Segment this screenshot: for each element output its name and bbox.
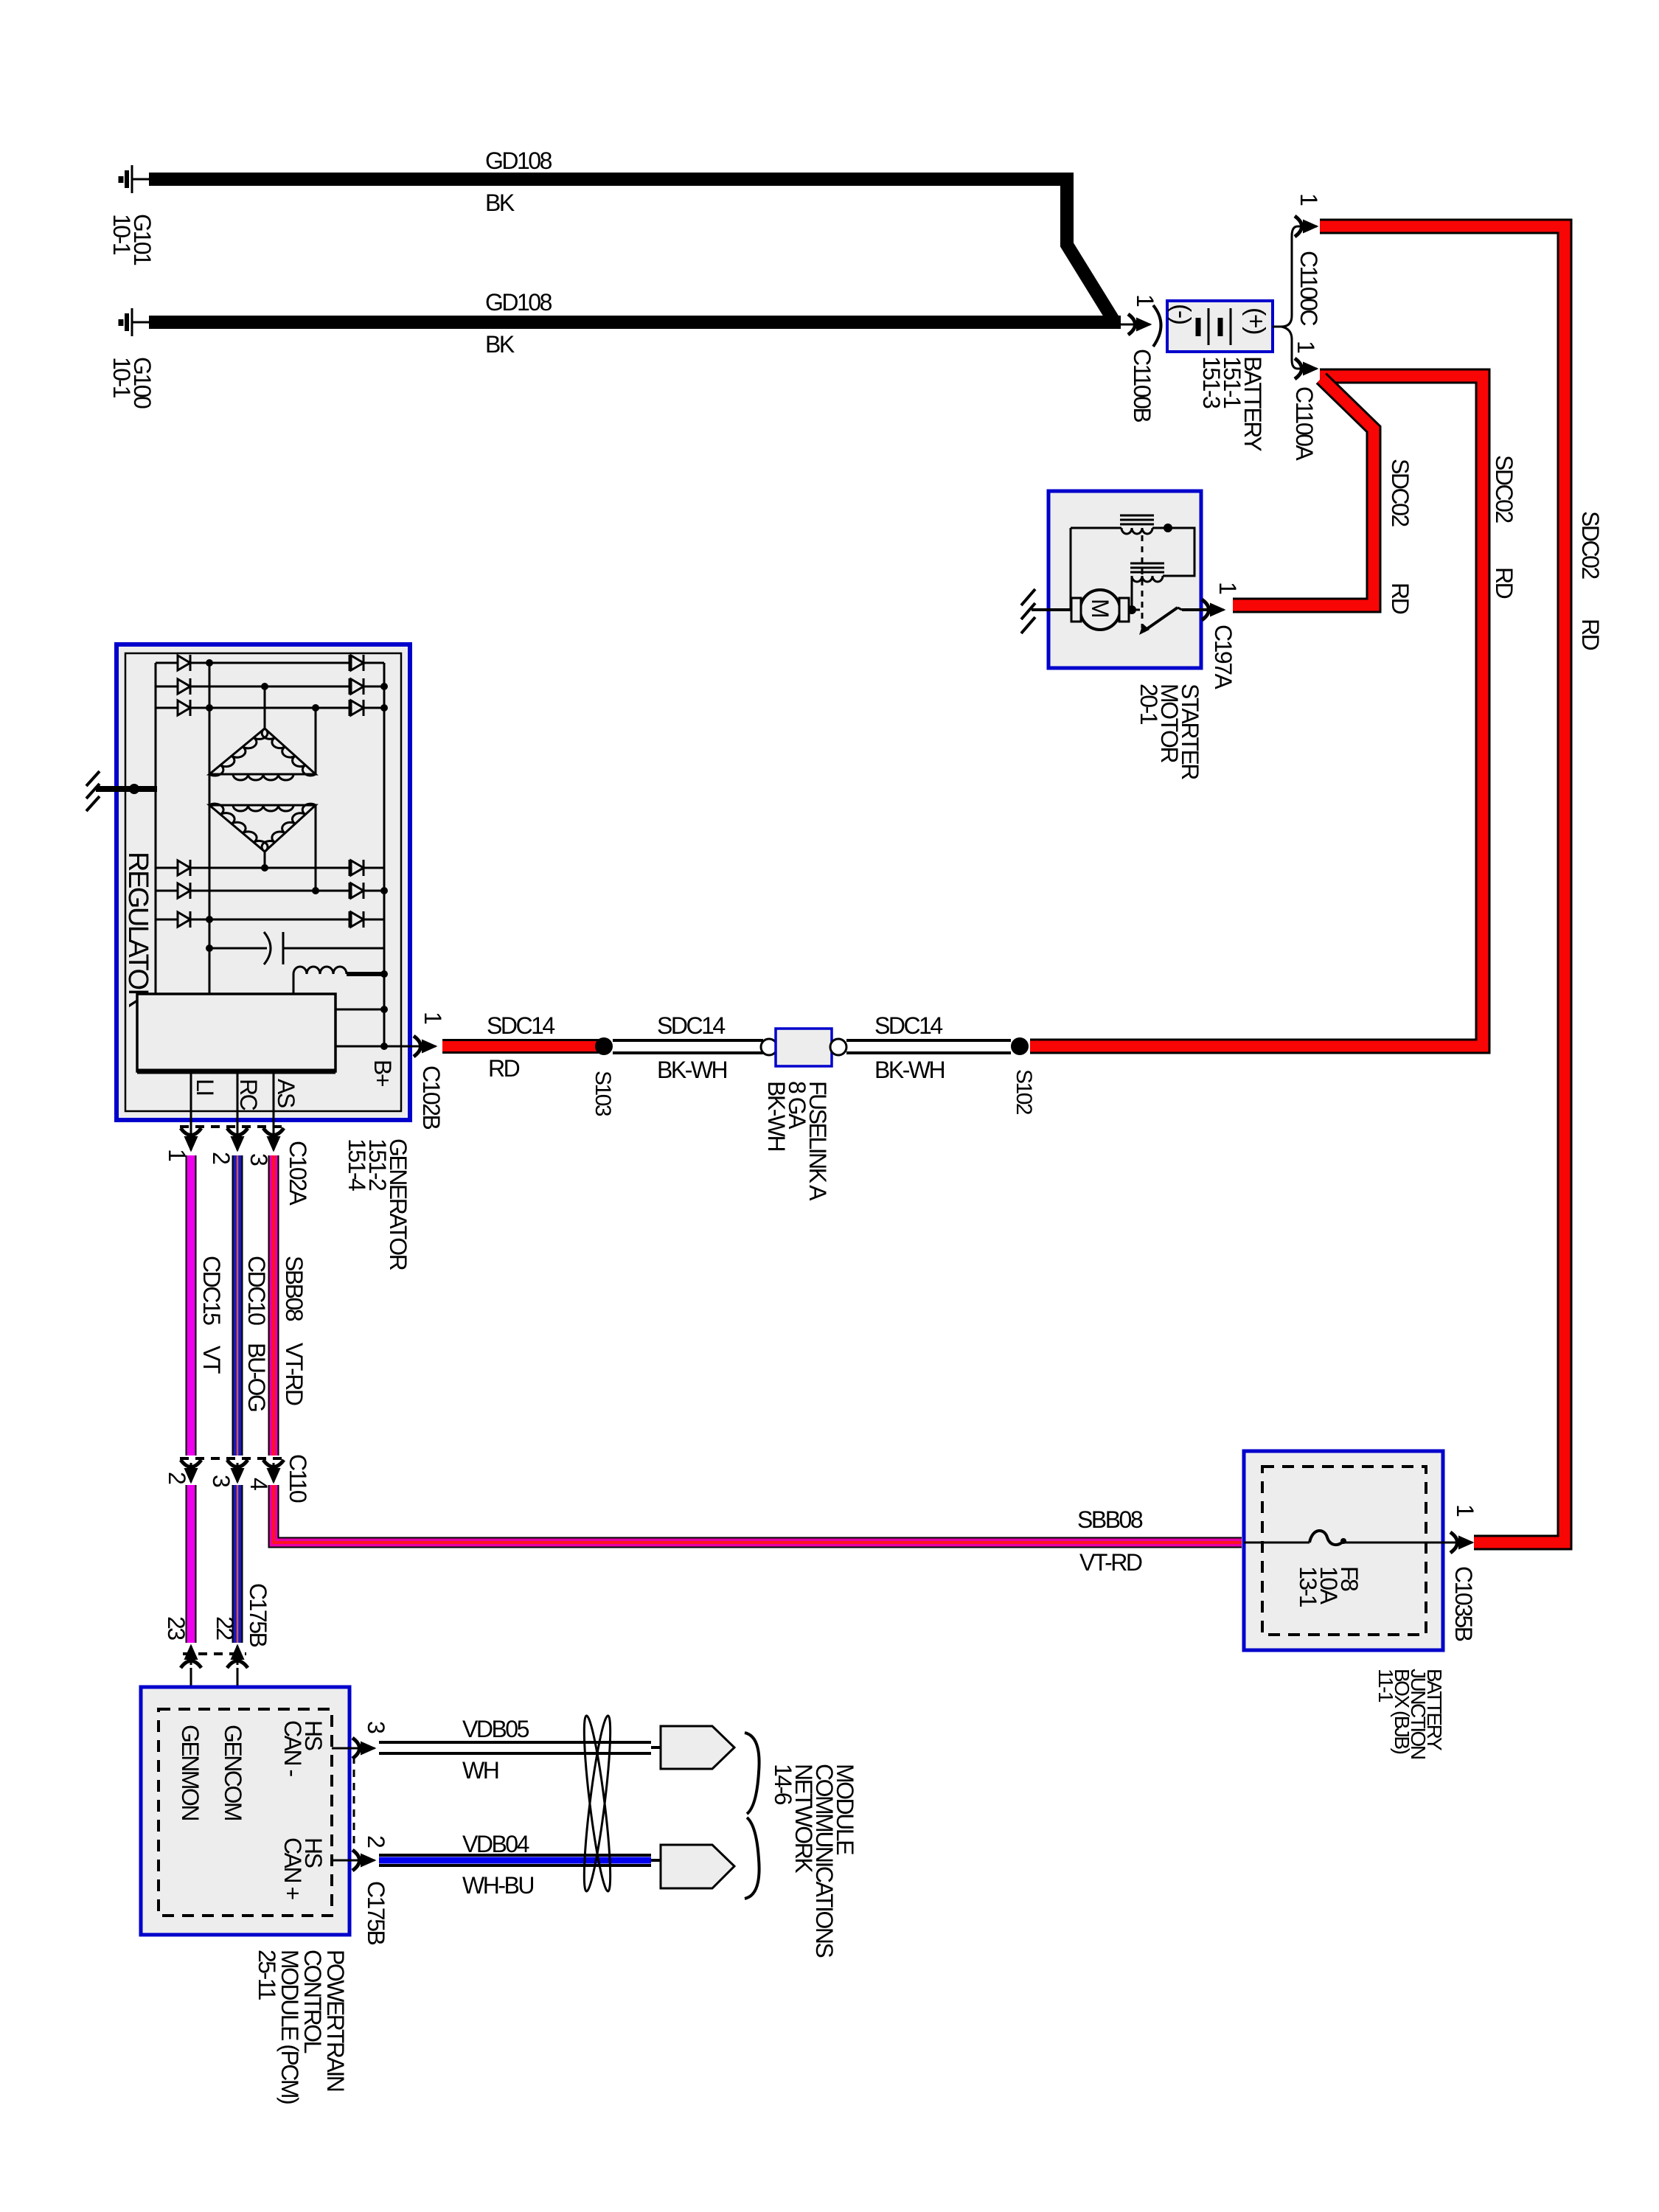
label RD (middle run) bbox=[1491, 567, 1517, 599]
svg-text:GENMON: GENMON bbox=[177, 1725, 204, 1820]
label MODULE COMMUNICATIONS NETWORK 14-6 bbox=[770, 1764, 858, 1957]
starter motor M bbox=[1080, 590, 1120, 630]
wire SBB08 VT-RD upper segment bbox=[268, 1155, 279, 1455]
pin 1 label at C1100B bbox=[1132, 294, 1158, 307]
pin label LI bbox=[192, 1079, 218, 1095]
diode (left) row y=899 bbox=[178, 655, 190, 670]
svg-text:1: 1 bbox=[1295, 193, 1322, 206]
capacitor bbox=[209, 947, 267, 950]
svg-text:SDC14: SDC14 bbox=[874, 1012, 942, 1039]
label C110 bbox=[285, 1454, 311, 1503]
svg-text:2: 2 bbox=[164, 1472, 190, 1484]
battery (-) terminal label bbox=[1167, 304, 1195, 324]
generator internal buses bbox=[156, 663, 384, 1046]
node B+ output line bbox=[335, 1046, 431, 1048]
diode (left) row y=1208 bbox=[178, 883, 190, 898]
leads into PCM bbox=[190, 1668, 192, 1709]
svg-text:VDB05: VDB05 bbox=[462, 1716, 529, 1742]
svg-text:1: 1 bbox=[1452, 1504, 1478, 1517]
motor M label bbox=[1087, 599, 1113, 617]
svg-text:GD108: GD108 bbox=[485, 289, 552, 316]
wire SDC02 RD from C1100A to S102 bbox=[1030, 376, 1483, 1046]
svg-text:23: 23 bbox=[163, 1616, 189, 1640]
svg-text:C102A: C102A bbox=[285, 1141, 311, 1206]
generator pin leads LI RC AS bbox=[191, 1071, 274, 1139]
svg-text:C1035B: C1035B bbox=[1450, 1566, 1477, 1641]
diode (left) row y=931 bbox=[178, 679, 190, 694]
svg-text:S103: S103 bbox=[591, 1071, 615, 1116]
diode (right) row y=1177 bbox=[349, 860, 351, 876]
label VT-RD (vertical) bbox=[281, 1343, 307, 1405]
solenoid plunger dashed link bbox=[1141, 535, 1144, 628]
splice S103 bbox=[595, 1037, 613, 1055]
svg-text:(-): (-) bbox=[1167, 304, 1195, 324]
svg-text:VT: VT bbox=[198, 1346, 225, 1374]
wire fork from battery (+) to C1100C and C1100A bbox=[1273, 226, 1298, 327]
junction on solenoid wire bbox=[1164, 524, 1172, 532]
svg-text:RC: RC bbox=[235, 1079, 262, 1110]
label F8 10A 13-1 bbox=[1295, 1566, 1363, 1607]
label BATTERY 151-1 151-3 bbox=[1198, 356, 1266, 451]
svg-text:LI: LI bbox=[192, 1079, 218, 1095]
svg-text:RD: RD bbox=[1491, 567, 1517, 599]
wire CDC15 VT lower segment bbox=[186, 1485, 197, 1643]
fuse F8 10A bbox=[1244, 1542, 1310, 1544]
starter solenoid hold-in coil bbox=[1130, 563, 1164, 572]
label RD (right run) bbox=[1577, 619, 1604, 650]
diode (right) row y=1208 bbox=[349, 883, 351, 899]
svg-text:RD: RD bbox=[1577, 619, 1604, 650]
label STARTER MOTOR 20-1 bbox=[1135, 684, 1203, 779]
connector C102B pin 1 arrow bbox=[414, 1036, 436, 1057]
wire GD108 BK (from G101) bbox=[149, 179, 1113, 320]
pin number 2 bbox=[208, 1152, 234, 1164]
label POWERTRAIN CONTROL MODULE (PCM) 25-11 bbox=[254, 1950, 349, 2104]
svg-text:2: 2 bbox=[363, 1835, 389, 1848]
connector C102 pin 2 arrow bbox=[227, 1128, 248, 1150]
svg-text:C110: C110 bbox=[285, 1454, 311, 1503]
svg-text:C1100B: C1100B bbox=[1129, 349, 1155, 422]
svg-text:SDC14: SDC14 bbox=[657, 1012, 725, 1039]
pin number 2 at C110 bbox=[164, 1472, 190, 1484]
svg-text:WH: WH bbox=[462, 1757, 498, 1784]
label C1100A bbox=[1291, 386, 1318, 461]
label FUSELINK A 8 GA BK-WH bbox=[763, 1081, 831, 1201]
motor brushes bbox=[1071, 598, 1081, 622]
label REGULATOR bbox=[122, 852, 153, 1008]
ground G101 symbol bbox=[121, 165, 151, 193]
pin label AS bbox=[273, 1079, 299, 1107]
pin number 23 bbox=[163, 1616, 189, 1640]
label SDC02 (starter run) bbox=[1387, 459, 1413, 526]
svg-text:BK-WH: BK-WH bbox=[657, 1057, 727, 1083]
wire SDC02 RD branch to starter motor C197A bbox=[1233, 378, 1374, 605]
svg-text:AS: AS bbox=[273, 1079, 299, 1107]
pin label HS CAN - bbox=[279, 1720, 327, 1776]
pin number 2 at C175B bbox=[363, 1835, 389, 1848]
label B+ bbox=[369, 1060, 396, 1087]
network connector (top) bbox=[651, 1746, 664, 1749]
pin label GENCOM bbox=[220, 1725, 246, 1820]
pin 1 label at C1100C bbox=[1295, 193, 1322, 206]
connector C102 pin 1 arrow bbox=[181, 1128, 201, 1150]
connector C1100C pin 1 arrow bbox=[1295, 216, 1317, 237]
pin 1 label at C1100A bbox=[1293, 341, 1319, 353]
diode (right) row y=1247 bbox=[349, 911, 351, 928]
svg-text:BK: BK bbox=[485, 189, 515, 216]
svg-text:3: 3 bbox=[208, 1475, 234, 1487]
wire CDC10 BU-OG lower segment bbox=[232, 1485, 243, 1643]
pin 1 label at C102B bbox=[420, 1012, 446, 1024]
svg-text:VDB04: VDB04 bbox=[462, 1831, 529, 1857]
battery junction box (BJB) bbox=[1244, 1451, 1443, 1650]
pin number 3 at C110 bbox=[208, 1475, 234, 1487]
label C197A bbox=[1210, 625, 1237, 690]
network connector (bottom) bbox=[651, 1859, 664, 1862]
pin number 22 bbox=[212, 1616, 238, 1640]
svg-text:SDC02: SDC02 bbox=[1387, 459, 1413, 526]
svg-text:GENCOM: GENCOM bbox=[220, 1725, 246, 1820]
svg-text:1: 1 bbox=[1293, 341, 1319, 353]
svg-text:GD108: GD108 bbox=[485, 147, 552, 174]
label VT bbox=[198, 1346, 225, 1374]
pin label GENMON bbox=[177, 1725, 204, 1820]
label BU-OG bbox=[243, 1343, 270, 1411]
svg-text:CDC10: CDC10 bbox=[243, 1256, 270, 1325]
motor output wire and switch bbox=[1129, 609, 1140, 611]
label BATTERY JUNCTION BOX (BJB) 11-1 bbox=[1374, 1669, 1446, 1759]
twisted pair symbol bbox=[579, 1715, 615, 1893]
connector C1100B female bracket bbox=[1153, 305, 1161, 347]
svg-text:3: 3 bbox=[363, 1721, 389, 1733]
svg-text:VT-RD: VT-RD bbox=[1079, 1549, 1142, 1576]
starter motor box bbox=[1048, 491, 1201, 668]
connector C197A pin 1 arrow bbox=[1202, 599, 1224, 620]
pin number 4 at C110 bbox=[246, 1478, 272, 1490]
label G100 10-1 bbox=[108, 357, 156, 408]
junction inductor-bus bbox=[380, 970, 388, 978]
diode (left) row y=960 bbox=[178, 700, 190, 715]
svg-text:VT-RD: VT-RD bbox=[281, 1343, 307, 1405]
svg-text:C197A: C197A bbox=[1210, 625, 1237, 690]
label RD (starter run) bbox=[1387, 582, 1413, 614]
wire stub to C1100B bbox=[1119, 324, 1135, 326]
label CDC15 bbox=[198, 1256, 225, 1325]
svg-text:22: 22 bbox=[212, 1616, 238, 1640]
svg-text:BU-OG: BU-OG bbox=[243, 1343, 270, 1411]
junction ground entry bbox=[129, 784, 139, 794]
label S102 bbox=[1012, 1069, 1036, 1115]
svg-text:2: 2 bbox=[208, 1152, 234, 1164]
svg-text:WH-BU: WH-BU bbox=[462, 1872, 533, 1899]
label C102B bbox=[418, 1065, 445, 1130]
HS CAN + lead bbox=[332, 1860, 363, 1862]
svg-text:RD: RD bbox=[1387, 582, 1413, 614]
wire hold-in coil to motor lead bbox=[1131, 576, 1133, 610]
pin label RC bbox=[235, 1079, 262, 1110]
diode (left) row y=1247 bbox=[178, 912, 190, 927]
diode (right) row y=931 bbox=[349, 678, 351, 695]
brace for module communications network bbox=[745, 1733, 759, 1814]
svg-text:RD: RD bbox=[488, 1055, 520, 1082]
pin number 3 bbox=[246, 1153, 272, 1166]
powertrain control module box bbox=[141, 1687, 349, 1935]
starter solenoid pull-in coil bbox=[1120, 515, 1154, 524]
svg-text:SDC02: SDC02 bbox=[1491, 455, 1517, 523]
stator delta winding (upper) bbox=[209, 728, 316, 774]
label C1100B bbox=[1129, 349, 1155, 422]
wire GD108 BK (from G100) bbox=[149, 316, 1121, 329]
pin label HS CAN + bbox=[279, 1837, 327, 1899]
connector C175B pin 23 arrow bbox=[181, 1646, 201, 1668]
svg-text:C175B: C175B bbox=[245, 1583, 271, 1647]
connector C110 pin 3 arrow bbox=[227, 1460, 248, 1482]
label S103 bbox=[591, 1071, 615, 1116]
wire VDB04 WH-BU bbox=[379, 1855, 651, 1865]
battery (+) terminal label bbox=[1242, 307, 1270, 334]
HS CAN - lead bbox=[332, 1747, 363, 1750]
connector C110 dashed line bbox=[180, 1457, 285, 1460]
battery box bbox=[1167, 301, 1273, 352]
svg-text:SDC14: SDC14 bbox=[487, 1012, 554, 1039]
svg-text:C102B: C102B bbox=[418, 1065, 445, 1130]
regulator to bus wires bbox=[335, 1009, 384, 1011]
connector C1100A pin 1 arrow bbox=[1295, 358, 1317, 379]
connector C1035B pin 1 arrow bbox=[1450, 1532, 1472, 1553]
svg-text:C1100C: C1100C bbox=[1295, 251, 1322, 325]
connector C102 dashed line bbox=[180, 1125, 285, 1128]
diode (right) row y=960 bbox=[349, 700, 351, 716]
regulator block bbox=[137, 994, 335, 1071]
label SDC02 (middle run) bbox=[1491, 455, 1517, 523]
battery cell plates bbox=[1198, 308, 1231, 345]
junction at motor lead bbox=[1127, 605, 1136, 614]
wire left branch down to motor bbox=[1070, 528, 1072, 610]
label SDC02 (right run) bbox=[1577, 511, 1604, 579]
svg-text:REGULATOR: REGULATOR bbox=[122, 852, 153, 1008]
connector C1100B pin 1 arrow bbox=[1128, 314, 1150, 335]
svg-text:CDC15: CDC15 bbox=[198, 1256, 225, 1325]
connector C102 pin 3 arrow bbox=[263, 1128, 284, 1150]
wire SDC02 RD from C1100C to BJB C1035B (right-most red run) bbox=[1320, 226, 1565, 1543]
pin number 1 bbox=[164, 1149, 190, 1161]
label C102A bbox=[285, 1141, 311, 1206]
label C1100C bbox=[1295, 251, 1322, 325]
svg-text:(+): (+) bbox=[1242, 307, 1270, 334]
pin 1 label at C197A bbox=[1214, 582, 1241, 594]
diode (left) row y=1177 bbox=[178, 860, 190, 875]
svg-text:C175B: C175B bbox=[363, 1881, 389, 1945]
pin number 3 at C175B bbox=[363, 1721, 389, 1733]
svg-text:1: 1 bbox=[1214, 582, 1241, 594]
inductor (field winding) bbox=[293, 967, 347, 974]
svg-text:B+: B+ bbox=[369, 1060, 396, 1087]
splice S102 bbox=[1011, 1037, 1029, 1055]
label C1035B bbox=[1450, 1566, 1477, 1641]
svg-text:SDC02: SDC02 bbox=[1577, 511, 1604, 579]
svg-text:BK-WH: BK-WH bbox=[874, 1057, 945, 1083]
connector C175B pin 22 arrow bbox=[227, 1646, 248, 1668]
diode (right) row y=899 bbox=[349, 655, 351, 671]
svg-text:M: M bbox=[1087, 599, 1113, 617]
wire SDC14 BK-WH (right segment) bbox=[846, 1040, 1011, 1053]
connector C110 pin 4 arrow bbox=[263, 1460, 284, 1482]
connector C175B pin 2 arrow bbox=[352, 1850, 375, 1871]
svg-text:SBB08: SBB08 bbox=[1077, 1506, 1143, 1533]
svg-text:S102: S102 bbox=[1012, 1069, 1036, 1115]
wire SDC14 RD from B+ to S103 bbox=[442, 1039, 599, 1054]
label G101 10-1 bbox=[108, 214, 156, 265]
rectifier diode rows bbox=[156, 662, 178, 664]
label CDC10 bbox=[243, 1256, 270, 1325]
stator winding taps bbox=[265, 686, 316, 891]
label C175B (CAN connector) bbox=[363, 1881, 389, 1945]
connector C175B pin 3 arrow bbox=[352, 1738, 375, 1759]
fuselink A box bbox=[761, 1039, 777, 1055]
label GENERATOR 151-2 151-4 bbox=[344, 1138, 411, 1270]
label SBB08 (vertical) bbox=[281, 1256, 307, 1321]
wire CDC15 VT (generator LI to PCM) upper segment bbox=[186, 1155, 197, 1455]
ground symbol at starter motor bbox=[1021, 589, 1073, 633]
pin 1 label at C1035B bbox=[1452, 1504, 1478, 1517]
svg-text:1: 1 bbox=[420, 1012, 446, 1024]
svg-text:SBB08: SBB08 bbox=[281, 1256, 307, 1321]
connector C110 pin 2 arrow bbox=[181, 1460, 201, 1482]
svg-text:C1100A: C1100A bbox=[1291, 386, 1318, 461]
generator box bbox=[116, 644, 410, 1120]
wire to pull-in coil bbox=[1071, 527, 1121, 529]
wire VDB05 WH bbox=[379, 1742, 651, 1753]
ground symbol at generator bbox=[86, 771, 157, 811]
wire SDC14 BK-WH (left segment) bbox=[613, 1040, 763, 1053]
wire CDC10 BU-OG upper segment bbox=[232, 1155, 243, 1455]
stator delta winding (lower) bbox=[209, 805, 316, 852]
label C175B (PCM top connector) bbox=[245, 1583, 271, 1647]
connector C175B dashed line (top) bbox=[183, 1652, 246, 1655]
svg-text:BK: BK bbox=[485, 331, 515, 358]
wire SBB08 VT-RD lower run to BJB bbox=[274, 1485, 1242, 1543]
connector C175B dashed line (CAN pins) bbox=[353, 1756, 355, 1852]
ground G100 symbol bbox=[121, 308, 151, 336]
